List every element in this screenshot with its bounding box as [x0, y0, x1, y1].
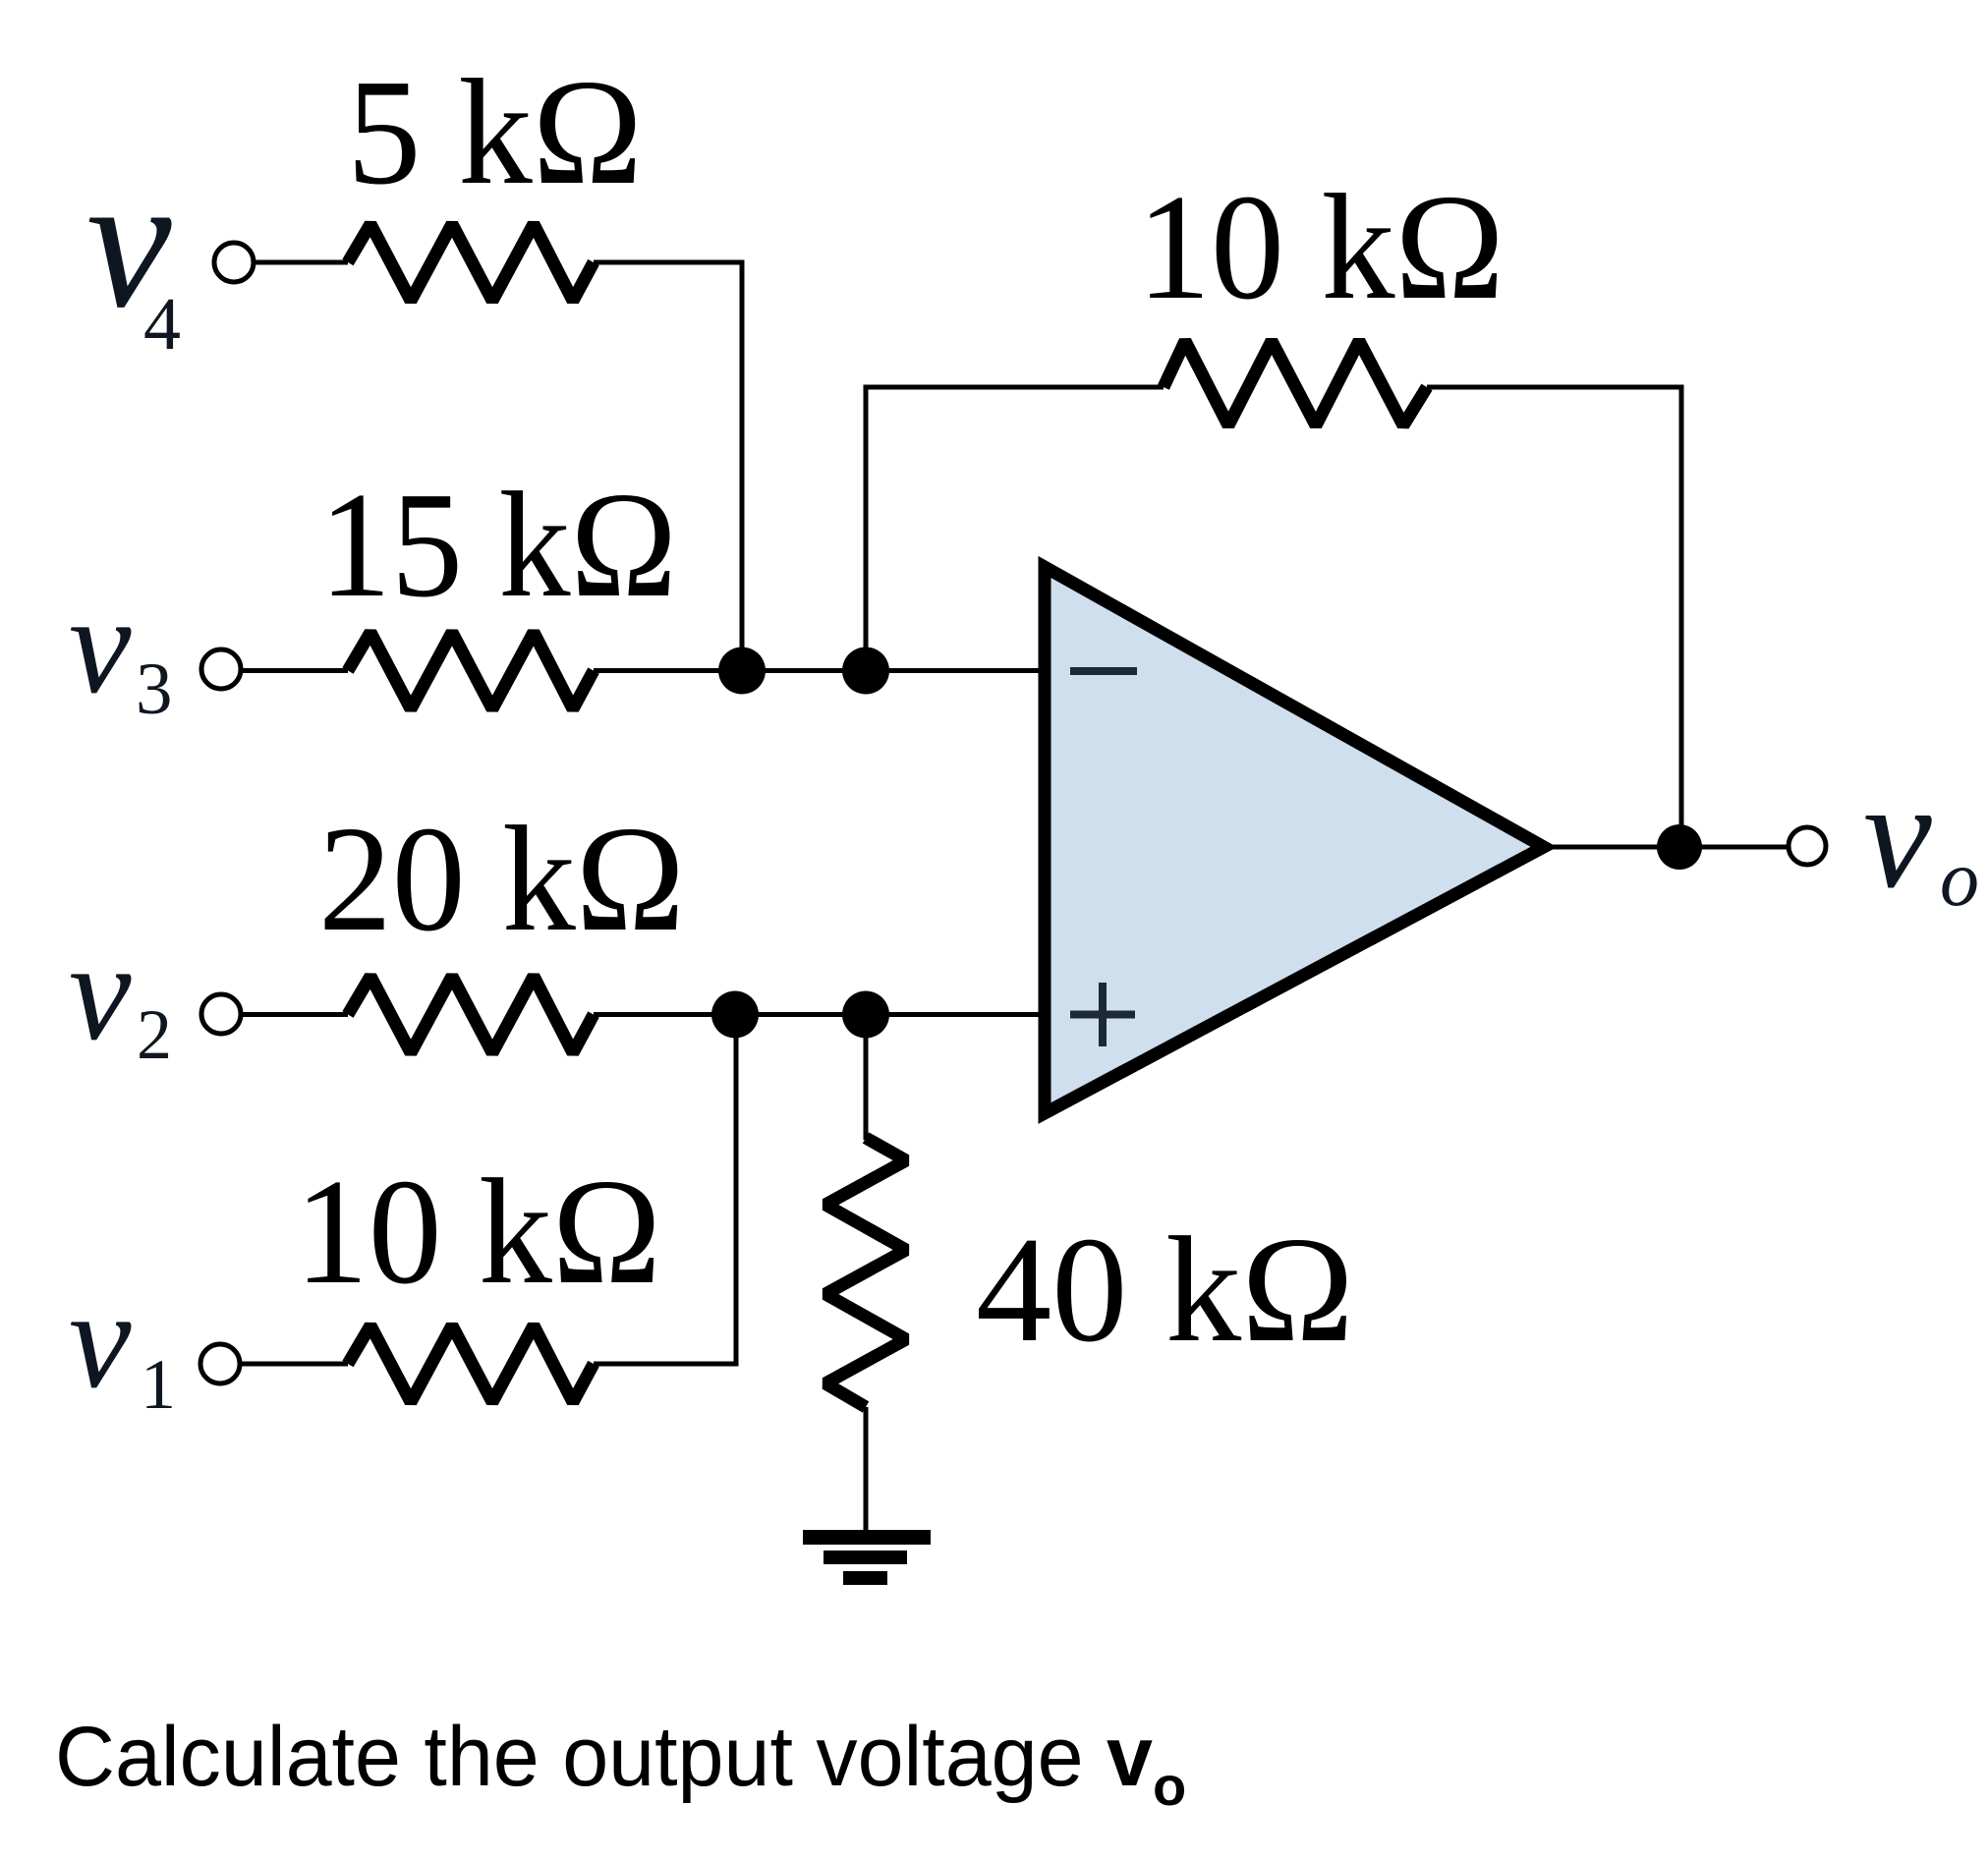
- op-amp U1: [1045, 567, 1544, 1113]
- output junction dot: [1657, 824, 1702, 870]
- terminal v4: [214, 243, 254, 282]
- svg-text:4: 4: [143, 283, 181, 366]
- svg-text:3: 3: [136, 649, 173, 730]
- svg-text:v: v: [1863, 749, 1932, 920]
- node A junction dot: [718, 648, 766, 695]
- node v3 label: [69, 567, 173, 730]
- terminal v2: [201, 994, 241, 1034]
- resistor R1 5 kOhm: [348, 224, 594, 301]
- node vo label: [1863, 749, 1979, 923]
- terminal v3: [201, 649, 241, 689]
- svg-text:v: v: [69, 567, 132, 722]
- wire R1 to node A (corner): [594, 262, 742, 671]
- node B junction dot: [842, 648, 889, 695]
- svg-text:10 kΩ: 10 kΩ: [1137, 164, 1505, 331]
- wire R4 up to node C: [594, 1015, 736, 1365]
- resistor R2 15 kOhm: [348, 633, 594, 709]
- node v2 label: [69, 914, 172, 1074]
- resistor R4 10 kOhm: [348, 1325, 594, 1402]
- wire node B up to feedback: [866, 387, 1164, 671]
- wire Rf to output node: [1427, 387, 1681, 847]
- svg-text:5 kΩ: 5 kΩ: [347, 49, 643, 216]
- op-amp plus sign: [1070, 983, 1135, 1046]
- svg-text:1: 1: [141, 1345, 176, 1424]
- ground: [803, 1530, 931, 1585]
- resistor R3 20 kOhm: [348, 977, 594, 1053]
- caption text: [55, 1710, 1186, 1817]
- wire op-amp output: [1545, 845, 1787, 850]
- node v1 label: [69, 1262, 176, 1424]
- wire R3 to non-inverting input: [594, 1012, 1044, 1017]
- terminal v1: [200, 1344, 240, 1383]
- wire Rg to ground: [864, 1407, 869, 1533]
- node C junction dot: [711, 991, 759, 1039]
- svg-text:Calculate the output voltage v: Calculate the output voltage v: [55, 1710, 1153, 1804]
- svg-text:o: o: [1153, 1755, 1186, 1817]
- svg-text:v: v: [69, 1262, 132, 1417]
- wire R2 to inverting input: [594, 668, 1044, 673]
- svg-text:15 kΩ: 15 kΩ: [319, 462, 677, 629]
- wire v2 to R3: [241, 1012, 348, 1017]
- resistor Rg 40 kOhm vertical: [825, 1138, 906, 1407]
- resistor Rf 10 kOhm feedback: [1164, 341, 1427, 425]
- svg-text:20 kΩ: 20 kΩ: [318, 796, 685, 963]
- svg-text:2: 2: [137, 995, 172, 1074]
- svg-text:v: v: [69, 914, 132, 1069]
- wire v4 to R1: [254, 260, 348, 265]
- wire v1 to R4: [240, 1362, 348, 1367]
- node D junction dot: [842, 991, 889, 1039]
- op-amp minus sign: [1070, 667, 1137, 675]
- svg-text:o: o: [1940, 836, 1979, 923]
- terminal vo: [1789, 827, 1826, 865]
- wire v3 to R2: [241, 668, 348, 673]
- node v4 label: [86, 136, 181, 366]
- wire node D down to Rg: [864, 1015, 869, 1141]
- svg-text:40 kΩ: 40 kΩ: [976, 1207, 1354, 1374]
- svg-text:10 kΩ: 10 kΩ: [295, 1149, 661, 1316]
